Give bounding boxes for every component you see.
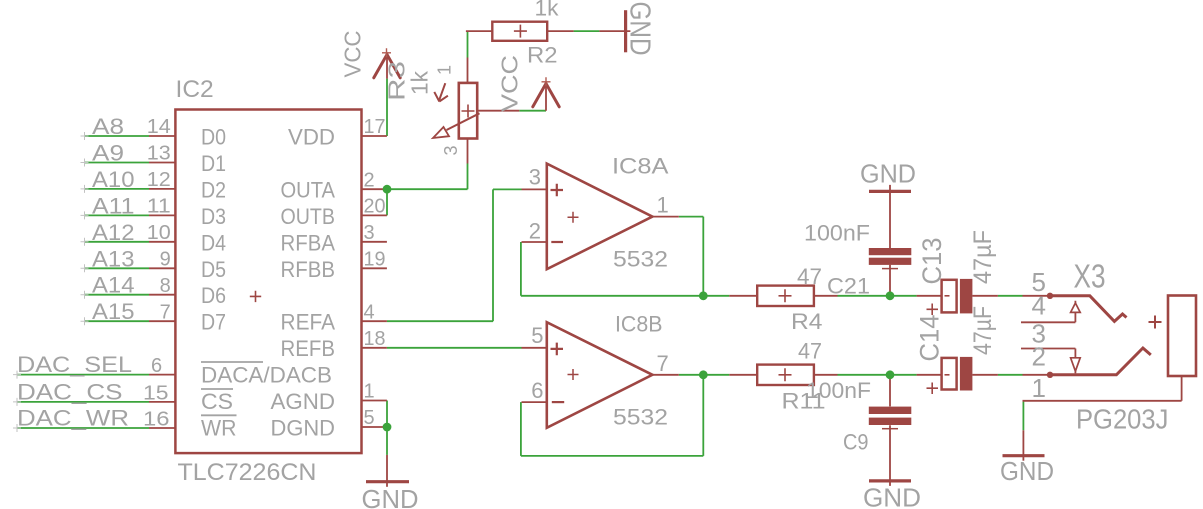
svg-text:PG203J: PG203J xyxy=(1076,404,1168,435)
svg-text:47µF: 47µF xyxy=(969,306,997,355)
svg-text:4: 4 xyxy=(1032,291,1046,321)
svg-text:100nF: 100nF xyxy=(804,221,870,246)
svg-text:C14: C14 xyxy=(915,315,945,362)
svg-text:RFBA: RFBA xyxy=(281,230,336,255)
svg-text:1: 1 xyxy=(364,381,375,403)
svg-text:14: 14 xyxy=(147,116,171,138)
svg-text:11: 11 xyxy=(147,196,171,218)
svg-text:X3: X3 xyxy=(1074,258,1106,295)
svg-text:DAC_WR: DAC_WR xyxy=(17,406,129,431)
svg-text:47: 47 xyxy=(798,338,822,363)
svg-text:A9: A9 xyxy=(92,141,124,166)
svg-text:5532: 5532 xyxy=(613,247,668,272)
svg-text:3: 3 xyxy=(441,145,461,155)
svg-text:IC8B: IC8B xyxy=(615,312,663,337)
svg-text:A14: A14 xyxy=(92,273,135,298)
svg-text:7: 7 xyxy=(657,351,669,376)
svg-text:REFA: REFA xyxy=(281,310,336,335)
svg-text:D6: D6 xyxy=(201,283,226,308)
svg-text:DACA/DACB: DACA/DACB xyxy=(201,363,332,388)
svg-text:OUTA: OUTA xyxy=(281,177,336,202)
svg-text:1: 1 xyxy=(435,65,455,75)
svg-text:GND: GND xyxy=(362,484,419,509)
svg-text:C13: C13 xyxy=(917,238,947,285)
svg-text:OUTB: OUTB xyxy=(281,204,336,229)
svg-text:100nF: 100nF xyxy=(806,378,871,403)
svg-text:GND: GND xyxy=(860,159,916,189)
svg-text:7: 7 xyxy=(160,301,171,323)
svg-text:D5: D5 xyxy=(201,257,226,282)
svg-text:15: 15 xyxy=(143,382,169,404)
svg-text:D4: D4 xyxy=(201,230,226,255)
svg-text:6: 6 xyxy=(531,378,543,403)
svg-text:1k: 1k xyxy=(407,71,433,95)
svg-text:D0: D0 xyxy=(201,125,226,150)
svg-text:WR: WR xyxy=(201,416,237,441)
svg-text:1: 1 xyxy=(1032,373,1046,403)
svg-text:D2: D2 xyxy=(201,177,226,202)
svg-text:2: 2 xyxy=(1032,342,1046,372)
svg-text:12: 12 xyxy=(147,169,171,191)
svg-text:18: 18 xyxy=(364,328,386,350)
svg-text:19: 19 xyxy=(364,249,386,271)
svg-text:13: 13 xyxy=(147,143,171,165)
svg-text:VDD: VDD xyxy=(288,125,335,150)
svg-text:CS: CS xyxy=(201,389,233,414)
svg-text:A11: A11 xyxy=(92,193,135,218)
svg-text:9: 9 xyxy=(160,249,171,271)
svg-text:20: 20 xyxy=(364,196,386,218)
svg-text:47µF: 47µF xyxy=(969,230,997,284)
svg-text:GND: GND xyxy=(1000,456,1054,486)
svg-text:5: 5 xyxy=(364,407,375,429)
svg-text:3: 3 xyxy=(529,165,541,190)
svg-text:4: 4 xyxy=(364,301,375,323)
svg-text:GND: GND xyxy=(863,482,921,509)
svg-text:C21: C21 xyxy=(827,274,870,299)
svg-text:10: 10 xyxy=(147,222,171,244)
svg-text:16: 16 xyxy=(143,408,170,430)
svg-text:1: 1 xyxy=(657,193,669,218)
svg-text:TLC7226CN: TLC7226CN xyxy=(178,459,317,486)
svg-text:AGND: AGND xyxy=(271,389,336,414)
svg-text:1k: 1k xyxy=(535,0,560,21)
svg-text:VCC: VCC xyxy=(340,31,366,78)
svg-text:D7: D7 xyxy=(201,310,226,335)
svg-text:GND: GND xyxy=(624,2,656,56)
svg-text:A15: A15 xyxy=(92,299,135,324)
svg-text:R2: R2 xyxy=(527,43,558,68)
svg-text:IC8A: IC8A xyxy=(612,154,669,179)
svg-text:A10: A10 xyxy=(92,167,135,192)
svg-text:R4: R4 xyxy=(791,309,823,334)
svg-text:8: 8 xyxy=(160,275,171,297)
svg-text:VCC: VCC xyxy=(497,55,523,112)
svg-text:IC2: IC2 xyxy=(176,76,214,103)
svg-text:6: 6 xyxy=(151,355,162,377)
svg-text:RFBB: RFBB xyxy=(281,257,336,282)
svg-text:REFB: REFB xyxy=(281,336,336,361)
svg-text:A13: A13 xyxy=(92,246,135,271)
svg-text:D1: D1 xyxy=(201,151,226,176)
svg-text:A8: A8 xyxy=(92,114,124,139)
svg-text:2: 2 xyxy=(529,219,541,244)
svg-text:5532: 5532 xyxy=(613,405,668,430)
svg-text:D3: D3 xyxy=(201,204,226,229)
svg-text:C9: C9 xyxy=(843,430,869,455)
svg-text:3: 3 xyxy=(364,222,375,244)
svg-text:2: 2 xyxy=(364,169,375,191)
svg-text:DGND: DGND xyxy=(271,416,336,441)
svg-text:DAC_SEL: DAC_SEL xyxy=(17,352,132,377)
svg-text:A12: A12 xyxy=(92,220,135,245)
svg-text:DAC_CS: DAC_CS xyxy=(17,379,123,404)
svg-text:47: 47 xyxy=(797,264,822,289)
svg-text:5: 5 xyxy=(531,323,543,348)
svg-text:17: 17 xyxy=(364,116,386,138)
